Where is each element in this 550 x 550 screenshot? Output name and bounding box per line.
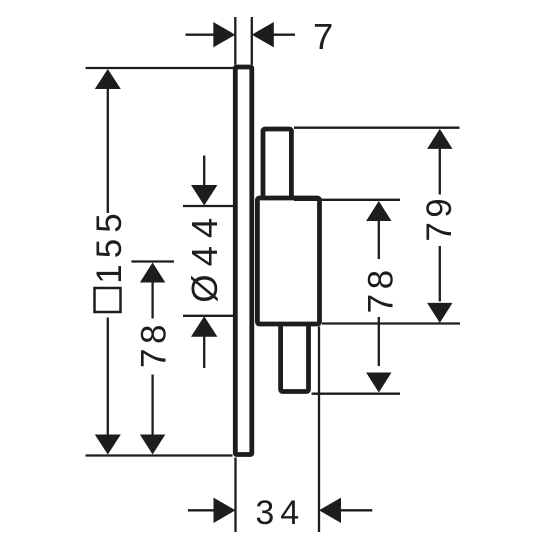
dim 79: lower dimension line bbox=[439, 246, 441, 302]
spout lower block (side view) bbox=[281, 318, 309, 392]
dim 79: upper dimension line bbox=[439, 147, 441, 194]
dim 78 right: top arrowhead bbox=[366, 201, 391, 221]
svg-text:78: 78 bbox=[135, 320, 174, 368]
dim 155: bottom arrowhead bbox=[95, 435, 121, 455]
dim 79: bottom arrowhead bbox=[427, 303, 452, 323]
dim 7: left leader line bbox=[186, 34, 215, 36]
escutcheon plate (side view) bbox=[235, 67, 252, 455]
dim 7: extension line right bbox=[251, 17, 253, 65]
dim 78 right: bottom extension line bbox=[312, 393, 401, 395]
dim 78 left: lower dimension line bbox=[151, 375, 153, 437]
svg-text:78: 78 bbox=[361, 265, 400, 313]
dim 78 right: bottom arrowhead bbox=[366, 373, 391, 393]
dim 78 right: upper dimension line bbox=[378, 220, 380, 260]
dim 44: upper leader line bbox=[203, 156, 205, 187]
dim 78 left: bottom arrowhead bbox=[140, 435, 165, 455]
dim 78 left: centre tick bbox=[131, 260, 174, 262]
svg-text:34: 34 bbox=[255, 494, 305, 532]
dim 78 right: top extension line bbox=[294, 199, 400, 201]
dim 155: lower dimension line bbox=[107, 318, 109, 437]
svg-text:79: 79 bbox=[420, 194, 459, 242]
dim 44: top arrowhead bbox=[191, 185, 217, 206]
handle upper block (side view) bbox=[263, 129, 291, 205]
valve main body (side view) bbox=[257, 198, 319, 324]
dim 44: lower leader line bbox=[203, 335, 205, 368]
dim 34: right leader line bbox=[341, 509, 373, 511]
dim 155: bottom extension line bbox=[86, 454, 233, 456]
dim 78 left: upper dimension line bbox=[151, 281, 153, 319]
dim 155: top extension line bbox=[86, 67, 234, 69]
dim 78 left: top arrowhead bbox=[140, 263, 165, 283]
svg-text:7: 7 bbox=[313, 16, 333, 57]
dim 44: bottom arrowhead bbox=[191, 316, 217, 337]
dim 7: left arrowhead bbox=[213, 22, 235, 47]
svg-text:Ø44: Ø44 bbox=[184, 210, 225, 303]
dim 34: right extension line bbox=[318, 327, 320, 533]
dim 155: square symbol bbox=[95, 288, 121, 312]
dim 44: top extension tick bbox=[183, 205, 233, 207]
svg-text:155: 155 bbox=[90, 207, 129, 283]
dim 34: left extension line bbox=[234, 458, 236, 533]
dim 79: top arrowhead bbox=[427, 129, 452, 149]
dim 7: right leader line bbox=[273, 34, 295, 36]
dim 34: left arrowhead bbox=[214, 498, 236, 523]
dim 79: bottom extension line bbox=[322, 322, 460, 324]
dim 34: right arrowhead bbox=[319, 498, 341, 523]
dim 7: extension line left bbox=[234, 17, 236, 65]
dim 78 right: lower dimension line bbox=[378, 317, 380, 366]
dim 7: right arrowhead bbox=[252, 22, 274, 47]
dim 155: upper dimension line bbox=[107, 88, 109, 214]
dim 79: top extension line bbox=[294, 127, 460, 129]
dim 155: top arrowhead bbox=[95, 69, 121, 89]
dim 44: bottom extension tick bbox=[183, 315, 233, 317]
dim 34: left leader line bbox=[188, 509, 216, 511]
